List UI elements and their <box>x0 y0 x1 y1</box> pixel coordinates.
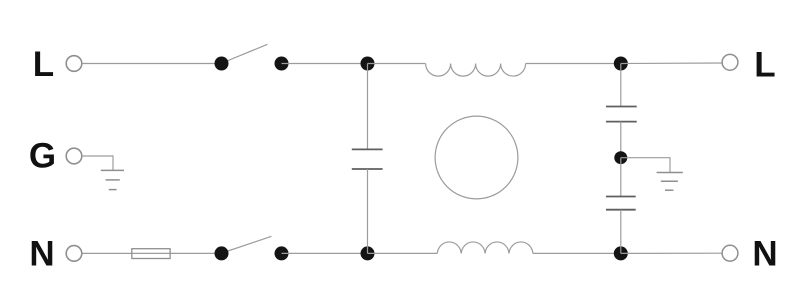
capacitor CX1 (X capacitor) <box>352 149 383 169</box>
svg-text:L: L <box>33 45 54 84</box>
inductor L1b (bottom winding) <box>437 242 533 253</box>
wire node E down to CY2 <box>620 158 622 197</box>
svg-text:G: G <box>29 137 56 176</box>
wire CX1 down to node C <box>367 169 369 253</box>
node D junction (bottom of CY2) <box>614 246 628 260</box>
terminal N-out <box>722 245 738 261</box>
ground (left, chassis) <box>101 170 124 189</box>
terminal L-out <box>722 54 738 70</box>
wire node B to terminal L-out <box>621 62 722 65</box>
wire node A to inductor L1a <box>368 63 426 65</box>
wire node E to ground (right) <box>621 158 670 173</box>
switch S1b throw node <box>275 246 289 260</box>
wire L1b to node D <box>533 252 621 254</box>
switch S1a blade <box>222 44 268 63</box>
node C junction (bottom of CX1) <box>361 246 375 260</box>
switch S1a pole node <box>215 57 229 71</box>
node E junction (Y-cap midpoint) <box>614 151 627 164</box>
terminal G <box>66 148 82 164</box>
wire G terminal to ground <box>82 156 113 170</box>
switch S1b pole node <box>215 246 229 260</box>
wire L-in to switch S1a <box>82 63 215 65</box>
svg-text:L: L <box>754 45 775 84</box>
svg-text:N: N <box>752 235 777 274</box>
node B junction (top of CY1) <box>614 57 628 71</box>
wire L1a to node B <box>526 63 621 65</box>
wire CY2 down to node D <box>620 210 622 254</box>
svg-text:N: N <box>29 234 54 273</box>
wire S1a to node A <box>282 63 368 65</box>
switch S1b blade <box>222 236 272 253</box>
wire node C to inductor L1b <box>368 252 438 254</box>
terminal L-in <box>66 56 82 72</box>
wire N-in to switch S1b (passes through fuse) <box>82 252 215 254</box>
capacitor CY1 (line Y capacitor) <box>606 107 637 122</box>
node A junction (top of CX1) <box>361 57 375 71</box>
wire node D to terminal N-out <box>621 252 722 254</box>
wire S1b to node C <box>282 252 368 254</box>
wire CY1 down to node E <box>620 122 622 158</box>
wire node B down to CY1 <box>620 64 622 107</box>
ground (right, chassis) <box>657 173 683 191</box>
terminal N-in <box>66 246 82 262</box>
wire node A down to CX1 <box>367 64 369 150</box>
fuse F1 <box>132 249 170 259</box>
switch S1a throw node <box>275 57 289 71</box>
inductor L1a (top winding) <box>426 64 526 77</box>
capacitor CY2 (neutral Y capacitor) <box>606 197 636 210</box>
common-mode choke core (center circle) <box>435 116 518 199</box>
